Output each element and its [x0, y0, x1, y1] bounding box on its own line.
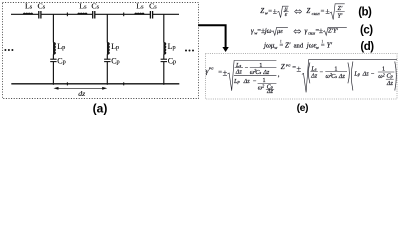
svg-text:Ls: Ls: [136, 2, 144, 11]
cell boundary tick bottom 2: [123, 82, 125, 85]
svg-text:Cp: Cp: [168, 56, 177, 65]
svg-text:,: ,: [278, 71, 280, 79]
inductor Ls cell 1: [23, 13, 33, 14]
ellipsis right: [185, 50, 194, 52]
cell boundary tick bottom 1: [66, 82, 68, 85]
shunt branch 3 wire mid: [163, 54, 165, 59]
svg-text:±: ±: [319, 26, 323, 35]
svg-text:±: ±: [326, 6, 330, 15]
radical c1: [272, 27, 288, 35]
right paren factor 1: [348, 63, 349, 84]
svg-text:Cs: Cs: [91, 2, 99, 11]
top rail wire segment 1: [11, 13, 39, 15]
shunt branch 1 wire lower: [52, 62, 54, 85]
shunt branch 2 wire lower: [106, 62, 108, 85]
capacitor Cp branch 2: [104, 58, 110, 60]
svg-text:Δz: Δz: [266, 88, 274, 95]
inductor Lp branch 3: [164, 42, 166, 54]
svg-text:Lp: Lp: [168, 42, 176, 51]
svg-text:±: ±: [273, 6, 277, 15]
svg-text:±: ±: [297, 64, 302, 73]
svg-text:Lp: Lp: [233, 78, 240, 85]
svg-text:Cs: Cs: [37, 2, 45, 11]
svg-text:Lp: Lp: [353, 71, 360, 78]
svg-text:(d): (d): [360, 41, 374, 53]
svg-text:Δz: Δz: [386, 80, 394, 87]
svg-text:(e): (e): [297, 102, 308, 114]
svg-text:=: =: [321, 8, 325, 15]
equation (e) right: Z^PG: [281, 60, 397, 93]
left paren factor 2: [351, 62, 353, 91]
svg-text:Δz: Δz: [262, 69, 270, 76]
svg-text:Z: Z: [281, 63, 285, 71]
svg-text:±: ±: [223, 68, 228, 77]
shunt branch 2 wire upper: [106, 14, 108, 42]
cell boundary tick top 1: [66, 13, 68, 17]
svg-text:Z′: Z′: [285, 41, 291, 49]
equation (c): gamma_w = +/- j omega sqrt(mu eps) <=> gamma_CRLH = +/- sqrt(Z'Y'): [251, 24, 373, 36]
right paren factor 2: [395, 62, 397, 91]
shunt branch 1 wire mid: [52, 54, 54, 59]
svg-text:Δz: Δz: [243, 78, 251, 85]
capacitor Cs cell 1: [38, 11, 40, 19]
svg-text:Cs: Cs: [255, 69, 261, 76]
svg-text:Cp: Cp: [57, 56, 66, 65]
top rail wire segment 4: [153, 13, 179, 15]
svg-text:Ls: Ls: [79, 2, 87, 11]
bottom rail wire: [11, 83, 179, 85]
top rail wire segment 3: [95, 13, 150, 15]
inductor Ls cell 3: [135, 13, 145, 14]
svg-text:(a): (a): [93, 101, 108, 115]
radical e1: [228, 60, 277, 90]
equation (b): Zw = +/- sqrt(mu/eps) <=> Z_CRLH = +/- sqrt(Z'/Y'): [260, 4, 372, 20]
svg-text:−: −: [371, 71, 375, 78]
svg-text:Cs: Cs: [149, 2, 157, 11]
capacitor Cp branch 3: [161, 58, 167, 60]
equation (d): j omega mu_w =! Z' and j omega eps_w =! Y': [263, 39, 374, 53]
svg-text:Cs: Cs: [331, 73, 337, 80]
svg-text:Z: Z: [260, 7, 264, 15]
radical c2: [323, 27, 347, 35]
svg-text:−: −: [320, 69, 324, 76]
svg-text:=: =: [268, 8, 272, 15]
svg-text:Δz: Δz: [235, 69, 243, 76]
radical e2: [302, 60, 397, 93]
dz measure arrow: [54, 87, 108, 90]
shunt branch 1 wire upper: [52, 14, 54, 42]
svg-text:jωμ: jωμ: [263, 41, 275, 49]
svg-text:Ls: Ls: [25, 2, 33, 11]
svg-text:με: με: [277, 28, 283, 35]
svg-text:and: and: [294, 42, 304, 49]
radical b2: [330, 4, 345, 20]
iff arrow b: [295, 10, 302, 14]
dashed box around equations (e): [206, 54, 398, 100]
main fraction bar e1: [234, 74, 277, 76]
left paren factor 1: [308, 63, 309, 84]
svg-text:−: −: [253, 78, 257, 85]
equation (e) left: gamma^PG: [206, 60, 280, 95]
big bent arrow from circuit to (e) box: [198, 25, 226, 47]
capacitor Cs cell 2: [92, 11, 94, 19]
svg-text:CRLH: CRLH: [312, 12, 321, 16]
svg-text:Δz: Δz: [362, 71, 370, 78]
svg-text:Cp: Cp: [111, 56, 120, 65]
svg-text:Cp: Cp: [387, 73, 394, 80]
svg-text:PG: PG: [208, 66, 214, 70]
inductor Lp branch 2: [107, 42, 109, 54]
cell boundary tick top 2: [123, 13, 125, 17]
shunt branch 3 wire upper: [163, 14, 165, 42]
dashed box around circuit (a): [3, 3, 199, 99]
top rail wire segment 2: [41, 13, 92, 15]
svg-text:Y′: Y′: [327, 41, 333, 49]
inductor Lp branch 1: [53, 42, 55, 54]
svg-text:Δz: Δz: [338, 73, 346, 80]
svg-text:jω: jω: [264, 27, 272, 35]
svg-text:Z′Y′: Z′Y′: [328, 28, 339, 35]
radical b1: [277, 6, 288, 18]
svg-text:dz: dz: [78, 89, 85, 98]
svg-text:−: −: [245, 65, 249, 72]
svg-text:Z: Z: [306, 7, 310, 15]
capacitor Cs cell 3: [149, 11, 151, 19]
svg-text:!: !: [322, 39, 323, 44]
svg-text:Y′: Y′: [338, 12, 343, 19]
svg-text:!: !: [280, 39, 281, 44]
svg-text:Lp: Lp: [111, 42, 119, 51]
svg-text:(c): (c): [360, 24, 373, 36]
shunt branch 2 wire mid: [106, 54, 108, 59]
inductor Ls cell 2: [78, 13, 88, 14]
svg-text:Δz: Δz: [310, 73, 318, 80]
shunt branch 3 wire lower: [163, 62, 165, 85]
svg-text:PG: PG: [285, 63, 291, 67]
iff arrow c: [294, 29, 301, 33]
capacitor Cp branch 1: [50, 58, 56, 60]
svg-text:Z′: Z′: [338, 5, 343, 12]
svg-text:Lp: Lp: [57, 42, 65, 51]
ellipsis left: [4, 49, 13, 51]
svg-text:(b): (b): [358, 7, 372, 19]
